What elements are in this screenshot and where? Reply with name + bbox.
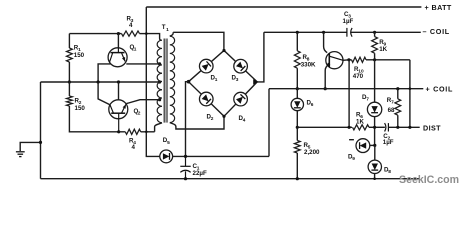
wire R2 bottom lead xyxy=(69,106,118,132)
wire DIST riser xyxy=(409,89,411,128)
label R9 1K xyxy=(379,39,387,53)
svg-text:1: 1 xyxy=(134,46,137,52)
label R1 150 xyxy=(74,45,85,59)
wire secondary top flare xyxy=(170,32,173,36)
wire R10 right lead xyxy=(366,59,410,61)
ground xyxy=(16,152,25,157)
svg-text:150: 150 xyxy=(74,52,85,59)
label D6 xyxy=(307,100,314,109)
node Q2 bottom junction xyxy=(117,130,120,133)
wire left rail xyxy=(40,82,42,179)
resistor R1 xyxy=(67,48,73,62)
svg-text:1µF: 1µF xyxy=(383,139,394,146)
node Q1 Q2 left junction xyxy=(97,80,100,83)
transformer T1 primary winding xyxy=(157,40,162,123)
resistor R9 xyxy=(372,37,378,54)
capacitor C3 xyxy=(347,28,352,37)
transformer T1 secondary winding xyxy=(170,36,175,122)
node D9 D8 junction xyxy=(373,144,376,147)
label Q1 xyxy=(130,44,137,53)
wire R7 top lead xyxy=(397,89,399,99)
node R6 left junction xyxy=(348,126,351,129)
wire Q3 base lead xyxy=(324,32,328,52)
wire D9 left lead xyxy=(349,139,354,141)
resistor R5 xyxy=(294,141,300,154)
diode D8 xyxy=(368,160,381,173)
label Q2 xyxy=(134,108,141,117)
wire R2 top lead xyxy=(68,82,70,96)
transistor Q2 xyxy=(109,100,128,132)
wire column to primary top xyxy=(146,34,161,41)
svg-text:6: 6 xyxy=(311,102,314,108)
label R6 1K xyxy=(356,112,364,126)
node R3 left / Q1 top xyxy=(117,32,120,35)
wire Q2 top lead xyxy=(118,82,120,100)
svg-text:3: 3 xyxy=(236,77,239,83)
label D2 xyxy=(207,114,214,123)
wire Q3 collector column down xyxy=(348,60,350,128)
node R9 R10 junction xyxy=(373,58,376,61)
node Q3 base top xyxy=(322,31,325,34)
resistor R10 xyxy=(352,57,367,62)
wire +COIL row xyxy=(269,88,423,90)
resistor R7 xyxy=(395,99,401,115)
wire primary bottom flare xyxy=(155,123,162,132)
wire R8 bottom lead xyxy=(296,68,298,89)
svg-text:+ BATT: + BATT xyxy=(425,3,452,12)
wire Q1 emitter to tap xyxy=(126,63,161,65)
svg-text:1: 1 xyxy=(166,27,169,33)
svg-text:4: 4 xyxy=(243,118,246,124)
node R5 bottom on bus xyxy=(296,177,299,180)
wire Q1 top lead xyxy=(117,34,119,48)
svg-text:2: 2 xyxy=(138,111,141,117)
resistor R2 xyxy=(67,82,73,96)
resistor R6 xyxy=(353,125,370,130)
svg-text:4: 4 xyxy=(132,144,136,151)
label D5 xyxy=(163,137,170,146)
wire Q1 left lead xyxy=(98,64,111,82)
label R5 2200 xyxy=(304,142,321,156)
node DIST riser bottom xyxy=(408,126,411,129)
node D8 bottom on bus xyxy=(373,177,376,180)
diode D6 xyxy=(291,98,303,110)
transistor Q3 xyxy=(325,52,343,69)
label R4 4 xyxy=(129,138,136,151)
wire Q2 emitter to tap xyxy=(126,100,161,104)
label R10 470 xyxy=(353,66,364,80)
node ground tap xyxy=(39,141,42,144)
node bias to primary center tap xyxy=(158,80,161,83)
capacitor C1 xyxy=(180,156,190,178)
svg-text:68: 68 xyxy=(388,107,395,114)
node R3 right column junction xyxy=(145,32,148,35)
label D3 xyxy=(232,75,239,84)
wire R1 top lead xyxy=(68,34,70,48)
svg-text:1K: 1K xyxy=(379,46,387,53)
label D9 xyxy=(348,154,355,163)
node R7 bottom on DIST xyxy=(396,126,399,129)
wire bridge right vertex up xyxy=(257,32,264,82)
wire C2 to DIST end xyxy=(388,126,419,128)
wire D9 right lead xyxy=(370,144,375,146)
label T1 xyxy=(162,24,169,33)
svg-text:8: 8 xyxy=(388,169,391,175)
wire Q3 emitter down xyxy=(325,67,326,89)
wire secondary bottom flare xyxy=(170,116,224,129)
svg-text:SeekIC.com: SeekIC.com xyxy=(399,174,459,186)
node bridge left vertex xyxy=(187,80,191,84)
node D7 column on DIST row xyxy=(373,126,376,129)
node D6 R5 junction xyxy=(296,126,299,129)
resistor R8 xyxy=(294,51,300,68)
transistor Q1 xyxy=(108,48,127,67)
label D7 xyxy=(362,94,369,103)
node D5 C1 junction xyxy=(184,155,187,158)
wire R1 bottom lead xyxy=(68,62,70,82)
wire R3 to column xyxy=(140,33,147,35)
diode D7 xyxy=(367,102,381,116)
wire R6 to C2 xyxy=(369,126,385,128)
label D8 xyxy=(384,167,391,176)
wire +BATT top bus xyxy=(146,6,421,8)
wire Q3 collector to R10 xyxy=(343,59,352,62)
wire secondary top to bridge xyxy=(173,32,224,50)
node bridge bottom vertex xyxy=(222,115,225,118)
label C3 1uF xyxy=(343,11,354,25)
svg-text:330K: 330K xyxy=(301,62,316,69)
wire R5 top lead xyxy=(296,127,298,140)
wire Q2 left lead xyxy=(98,82,110,105)
wire bias row xyxy=(41,81,162,83)
svg-text:470: 470 xyxy=(353,73,364,80)
diode D3 xyxy=(234,59,248,73)
svg-text:2: 2 xyxy=(211,116,214,122)
wire D7 column xyxy=(374,60,376,102)
label R3 4 xyxy=(127,16,134,29)
label D1 xyxy=(211,75,218,84)
svg-text:5: 5 xyxy=(167,140,170,146)
svg-text:4: 4 xyxy=(129,22,133,29)
wire R5 bottom lead xyxy=(296,153,298,179)
label C1 22uF xyxy=(193,163,207,177)
resistor R4 xyxy=(125,129,140,134)
transformer T1 core xyxy=(164,39,167,123)
label R2 150 xyxy=(75,98,86,113)
resistor R3 xyxy=(122,31,140,36)
label R8 330K xyxy=(301,54,316,69)
node primary tap upper xyxy=(158,62,161,65)
wire +BATT left column xyxy=(145,7,147,132)
node Q3 emitter on +COIL xyxy=(324,87,327,90)
wire column down to D5 xyxy=(146,132,160,157)
node bridge right vertex xyxy=(253,79,259,84)
diode D4 xyxy=(234,92,248,106)
node R9 top xyxy=(373,31,376,34)
svg-text:7: 7 xyxy=(366,97,369,103)
svg-text:1: 1 xyxy=(215,77,218,83)
svg-text:150: 150 xyxy=(75,105,86,112)
wire R7 bottom lead xyxy=(397,115,399,127)
svg-text:DIST: DIST xyxy=(423,123,441,132)
node primary tap lower xyxy=(158,98,161,101)
node R8 top xyxy=(296,31,299,34)
wire ground tap xyxy=(20,142,40,151)
label D4 xyxy=(239,115,246,124)
diode D9 xyxy=(356,139,370,153)
wire -COIL row xyxy=(264,31,421,33)
capacitor C2 xyxy=(385,123,389,131)
wire +COIL feed riser xyxy=(268,89,270,157)
node R1 R2 bias junction xyxy=(68,80,71,83)
wire D5 row right xyxy=(172,155,269,157)
wire R9 leads xyxy=(374,32,376,60)
svg-text:7: 7 xyxy=(391,100,394,106)
wire R4 leads xyxy=(119,131,155,133)
svg-text:2,200: 2,200 xyxy=(304,149,320,156)
node C1 bottom on bus xyxy=(184,177,187,180)
label R7 68 xyxy=(387,97,395,114)
wire D8 bottom lead xyxy=(374,173,376,179)
wire R3 row left xyxy=(69,33,121,35)
svg-text:– COIL: – COIL xyxy=(423,27,450,36)
diode D2 xyxy=(199,92,213,106)
wire bridge left vertex down xyxy=(186,82,189,157)
wire R10 down to +COIL xyxy=(409,60,411,89)
node R4 column junction xyxy=(145,131,148,134)
wire D6 top lead xyxy=(296,89,298,99)
diode D5 xyxy=(160,150,173,163)
wire bridge diamond xyxy=(189,51,258,117)
node R8 D6 on +COIL xyxy=(296,87,299,90)
svg-text:1µF: 1µF xyxy=(343,18,354,25)
svg-text:22µF: 22µF xyxy=(193,170,207,177)
node R7 top on +COIL xyxy=(396,87,399,90)
wire D7 bottom xyxy=(374,117,376,146)
svg-text:9: 9 xyxy=(352,156,355,162)
wire DIST row left xyxy=(297,126,352,128)
wire D8 top lead xyxy=(374,145,376,160)
node Q2 top lead on bias row xyxy=(117,80,120,83)
wire bottom bus xyxy=(41,178,421,180)
svg-text:+ COIL: + COIL xyxy=(426,85,454,94)
node DIST riser top xyxy=(409,87,412,90)
label C2 1uF xyxy=(383,133,394,146)
diode D1 xyxy=(199,59,213,73)
resistor R2 element xyxy=(67,96,73,106)
wire D6 bottom lead xyxy=(296,111,298,128)
node Q3 collector R10 xyxy=(347,58,350,61)
wire R8 top lead xyxy=(296,32,298,51)
node bridge top vertex xyxy=(222,49,225,52)
svg-text:1K: 1K xyxy=(356,118,364,125)
